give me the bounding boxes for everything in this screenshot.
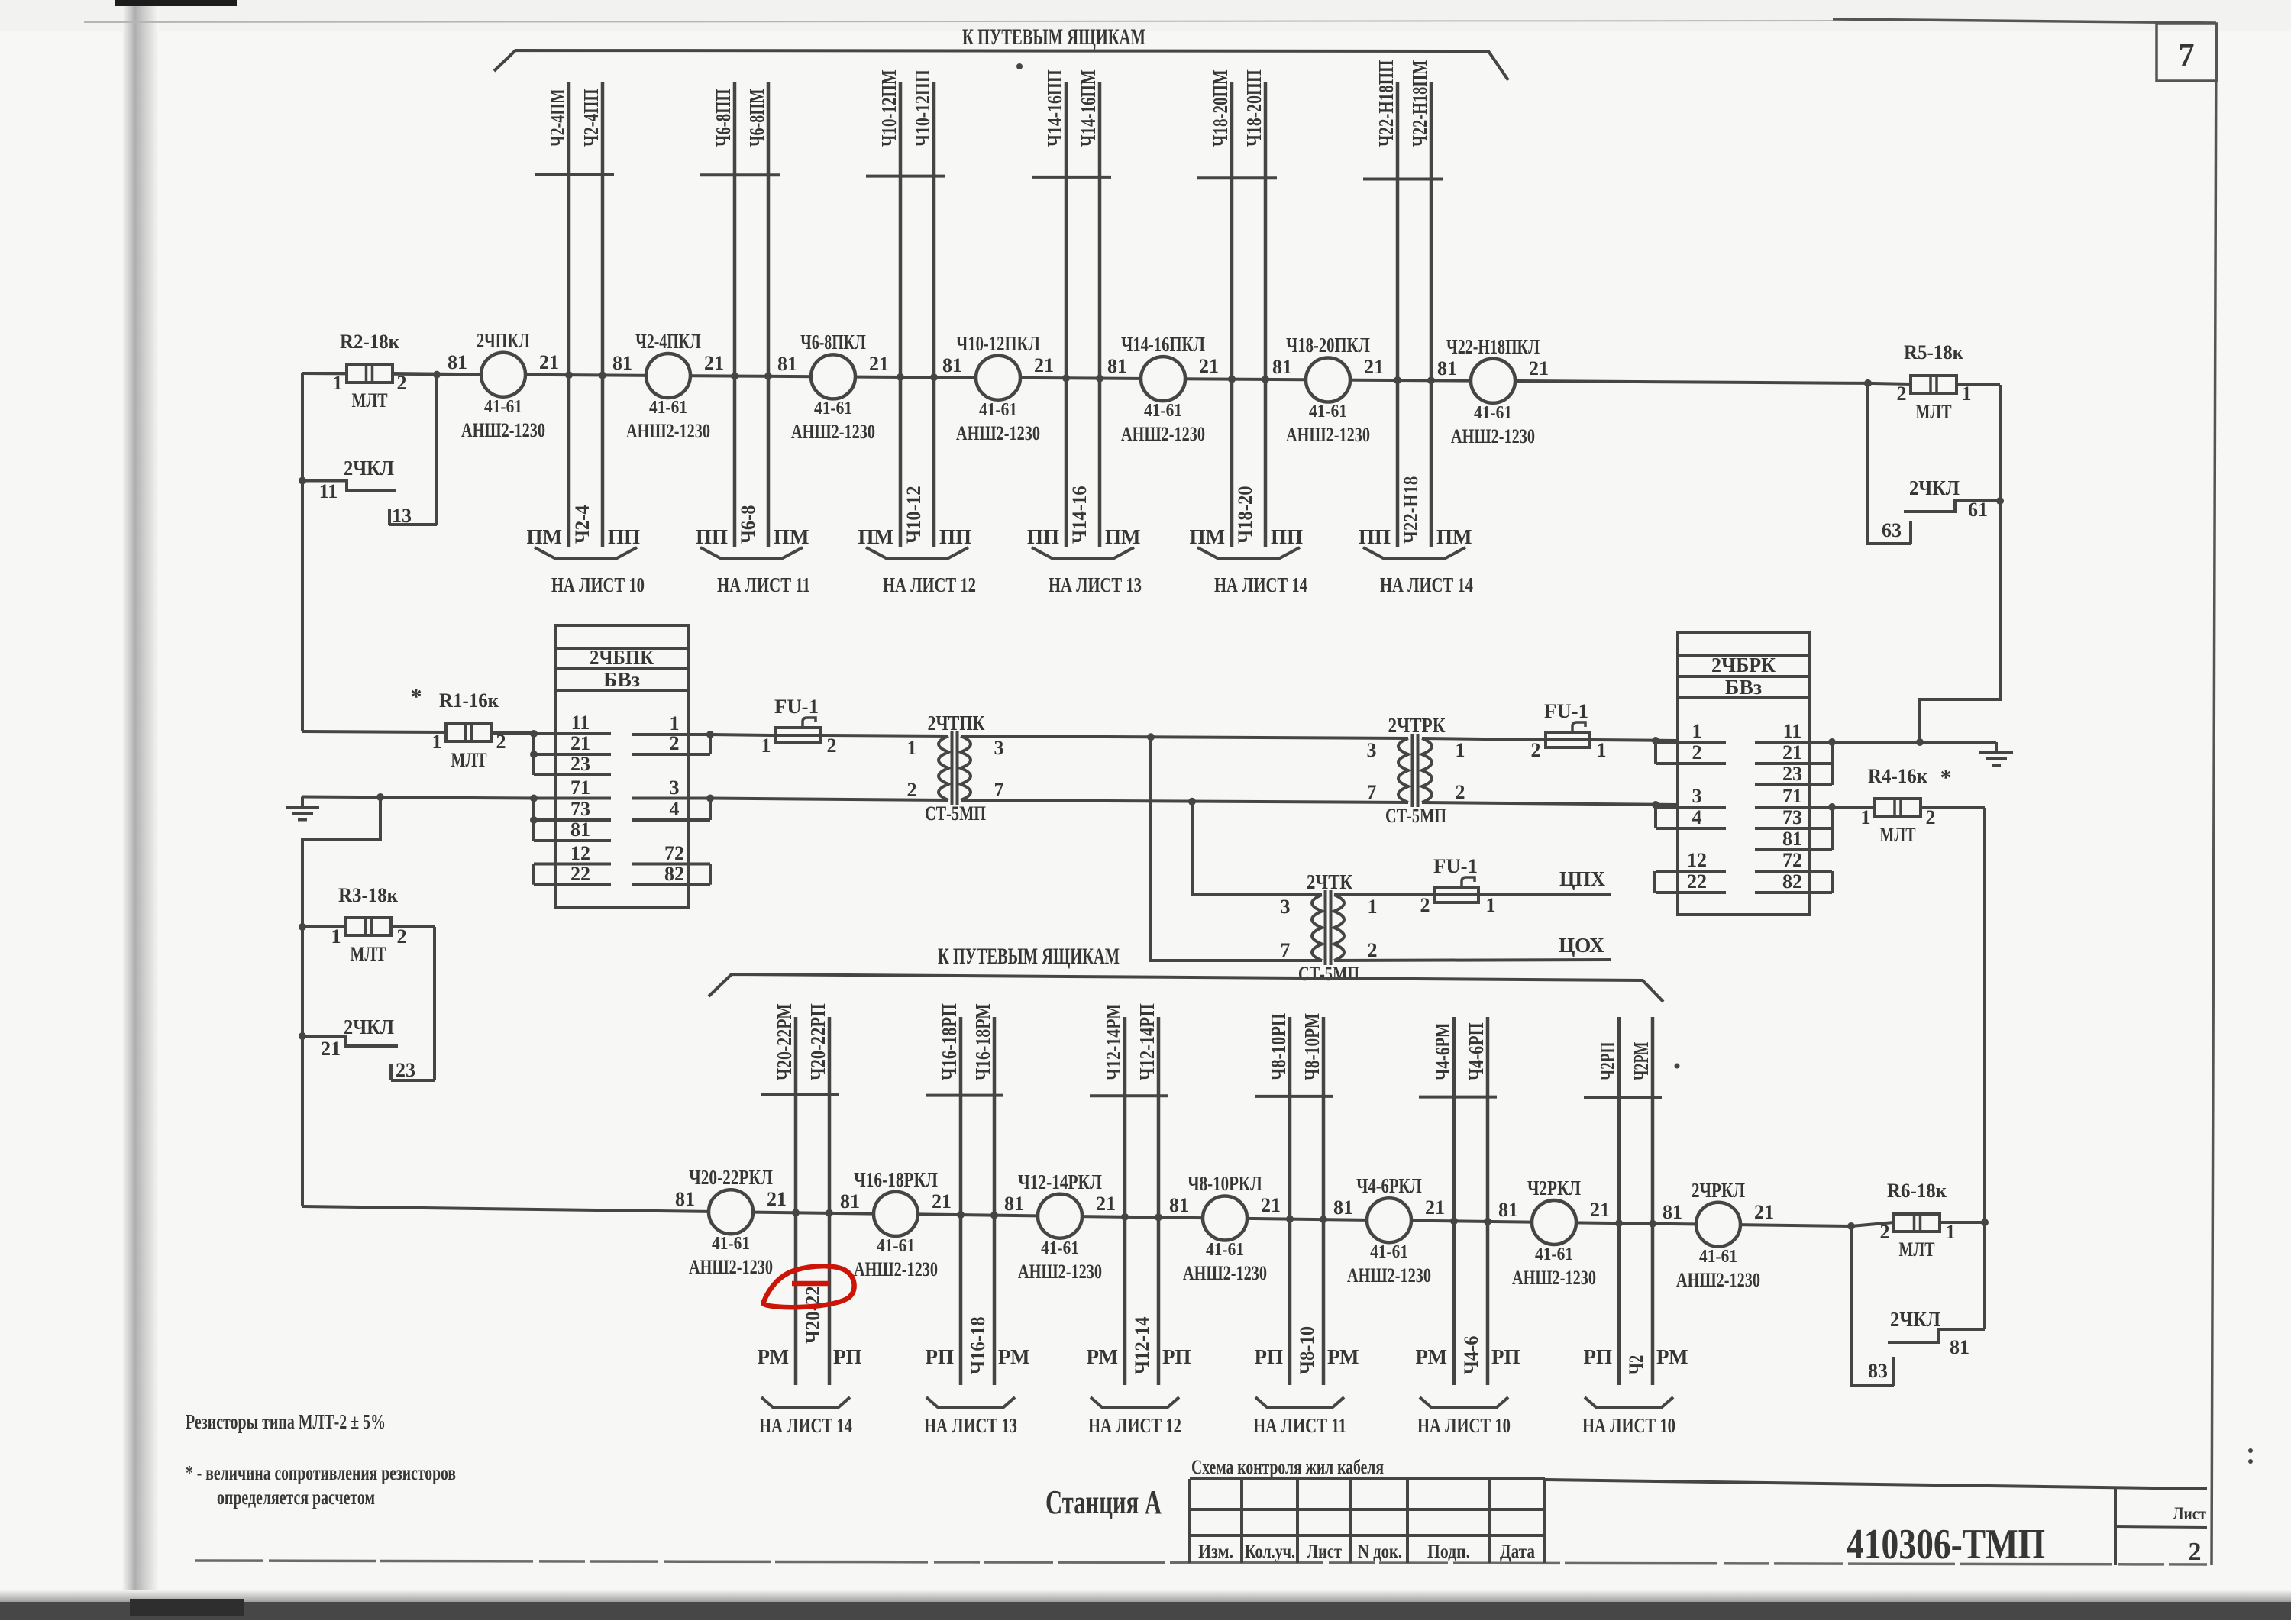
cable core label Ч14-16 — [1068, 486, 1091, 544]
terminal labels РМ/РП pair Ч4-6 — [1416, 1345, 1520, 1368]
svg-text:41-61: 41-61 — [979, 400, 1017, 420]
svg-text:21: 21 — [704, 352, 724, 374]
svg-text:* - величина сопротивления рез: * - величина сопротивления резисторов — [186, 1461, 456, 1484]
svg-text:1: 1 — [432, 731, 442, 753]
label Станция А — [1045, 1484, 1162, 1521]
svg-text:Резисторы типа МЛТ-2 ± 5%: Резисторы типа МЛТ-2 ± 5% — [186, 1410, 386, 1433]
cable core label Ч18-20 — [1234, 486, 1256, 544]
terminal labels РП/РМ pair Ч16-18 — [926, 1345, 1030, 1368]
svg-text:1: 1 — [1597, 739, 1607, 761]
svg-text:2ЧБРК: 2ЧБРК — [1711, 654, 1776, 676]
wire: top relay bus from rail to R5 — [302, 373, 1868, 383]
svg-text:Ч4-6РП: Ч4-6РП — [1465, 1022, 1488, 1080]
svg-text:2: 2 — [1531, 739, 1541, 761]
terminal block 2ЧБРК / БВз — [1654, 633, 1836, 915]
svg-text:Ч2-4ПМ: Ч2-4ПМ — [546, 89, 569, 147]
svg-text:FU-1: FU-1 — [1433, 855, 1478, 877]
svg-text:ПМ: ПМ — [1190, 525, 1226, 548]
wire: bottom relay bus — [302, 1206, 1851, 1226]
svg-text:21: 21 — [1590, 1199, 1610, 1221]
svg-text:11: 11 — [319, 480, 338, 502]
svg-text:АНШ2-1230: АНШ2-1230 — [1347, 1264, 1431, 1287]
svg-text:ЦПХ: ЦПХ — [1559, 867, 1605, 890]
svg-text:ПП: ПП — [608, 525, 640, 548]
svg-text:22: 22 — [1687, 870, 1707, 893]
wire: left vertical rail — [301, 373, 304, 731]
svg-text:АНШ2-1230: АНШ2-1230 — [626, 420, 710, 442]
svg-text:7: 7 — [1281, 939, 1291, 961]
cable crossing tick pair Ч8-10 — [1255, 1095, 1333, 1098]
cable crossing tick pair Ч10-12 — [866, 175, 945, 178]
svg-text:Ч10-12ПКЛ: Ч10-12ПКЛ — [956, 332, 1040, 355]
svg-text:81: 81 — [942, 354, 962, 376]
cable wire Ч14-16ПП — [1043, 69, 1066, 547]
svg-text:РП: РП — [1162, 1345, 1191, 1368]
wire: branch to 2ЧТК pin 7 (ЦОХ side) — [1151, 737, 1322, 961]
terminal labels РМ/РП pair Ч20-22 — [758, 1345, 862, 1368]
svg-text:АНШ2-1230: АНШ2-1230 — [1018, 1261, 1102, 1283]
cable wire Ч18-20ПМ — [1209, 69, 1232, 547]
red hand-drawn annotation oval — [763, 1266, 854, 1307]
svg-text:СТ-5МП: СТ-5МП — [1385, 805, 1446, 827]
svg-text:2: 2 — [1420, 894, 1430, 916]
svg-text:АНШ2-1230: АНШ2-1230 — [461, 419, 545, 441]
ground symbol (left) — [286, 797, 319, 820]
reference mark — [1016, 63, 1023, 69]
svg-text:РМ: РМ — [1327, 1345, 1359, 1368]
reference mark — [1675, 1064, 1680, 1069]
transformer 2ЧТПК СТ-5МП — [907, 712, 1004, 825]
relay Ч18-20ПКЛ (АНШ2-1230) — [1272, 334, 1384, 446]
svg-text:Ч2РП: Ч2РП — [1596, 1042, 1619, 1080]
svg-text:2ЧКЛ: 2ЧКЛ — [344, 1015, 394, 1038]
svg-text:Ч22-Н18: Ч22-Н18 — [1400, 476, 1422, 544]
svg-text:К ПУТЕВЫМ ЯЩИКАМ: К ПУТЕВЫМ ЯЩИКАМ — [962, 24, 1145, 50]
svg-text:21: 21 — [1529, 357, 1549, 379]
svg-text:Лист: Лист — [1307, 1542, 1342, 1562]
svg-text:НА ЛИСТ 12: НА ЛИСТ 12 — [883, 573, 976, 596]
svg-text:21: 21 — [1261, 1194, 1281, 1216]
svg-text:81: 81 — [675, 1188, 695, 1210]
svg-text:11: 11 — [571, 712, 590, 734]
svg-text:Ч10-12: Ч10-12 — [903, 486, 925, 544]
svg-text:1: 1 — [333, 372, 343, 394]
bracket НА ЛИСТ 14 — [1197, 547, 1307, 596]
svg-text:Ч10-12ПМ: Ч10-12ПМ — [877, 69, 900, 147]
svg-text:81: 81 — [777, 353, 797, 375]
svg-text:БВз: БВз — [603, 668, 640, 691]
svg-text:2: 2 — [496, 731, 506, 753]
wire: 2ЧТРК pin 1 to FU-1 to 2ЧБРК rows 1/2 — [1422, 737, 1678, 744]
svg-text:*: * — [411, 684, 422, 709]
bracket НА ЛИСТ 13 — [924, 1397, 1017, 1437]
cable wire Ч2РП — [1596, 1017, 1619, 1385]
svg-text:ПП: ПП — [1027, 525, 1059, 548]
svg-text:41-61: 41-61 — [1699, 1247, 1737, 1267]
svg-text:2ЧРКЛ: 2ЧРКЛ — [1692, 1179, 1745, 1202]
svg-text:МЛТ: МЛТ — [1916, 401, 1952, 423]
svg-text:81: 81 — [570, 818, 590, 841]
svg-text:61: 61 — [1968, 499, 1988, 521]
svg-text:41-61: 41-61 — [1474, 403, 1512, 423]
svg-text:Ч20-22РМ: Ч20-22РМ — [773, 1003, 796, 1080]
svg-text:Ч8-10РКЛ: Ч8-10РКЛ — [1188, 1172, 1262, 1195]
junction dots pair Ч20-22 on bottom bus — [792, 1209, 833, 1217]
svg-text:63: 63 — [1882, 519, 1902, 541]
cable crossing tick pair Ч6-8 — [700, 173, 780, 176]
svg-text:Ч2: Ч2 — [1625, 1355, 1647, 1374]
terminal labels ПМ/ПП pair Ч18-20 — [1190, 525, 1304, 548]
cable core label Ч8-10 — [1296, 1326, 1318, 1374]
svg-text:Ч22-Н18ПКЛ: Ч22-Н18ПКЛ — [1446, 335, 1540, 358]
svg-text:СТ-5МП: СТ-5МП — [1298, 963, 1359, 985]
svg-text:2: 2 — [670, 732, 680, 754]
bracket НА ЛИСТ 10 — [535, 547, 645, 596]
relay Ч6-8ПКЛ (АНШ2-1230) — [777, 331, 889, 443]
svg-text:РП: РП — [833, 1345, 862, 1368]
svg-text:1: 1 — [1962, 383, 1972, 405]
svg-text:81: 81 — [612, 352, 632, 374]
svg-text:81: 81 — [1272, 356, 1292, 378]
svg-text:РП: РП — [1255, 1345, 1284, 1368]
cable crossing tick pair Ч2 — [1584, 1096, 1662, 1099]
cable wire Ч2-4ПМ — [546, 82, 569, 547]
svg-text:Ч6-8ПМ: Ч6-8ПМ — [745, 89, 768, 147]
svg-text:21: 21 — [1096, 1193, 1116, 1215]
svg-text:Ч16-18РМ: Ч16-18РМ — [971, 1003, 994, 1080]
svg-text:21: 21 — [1364, 356, 1384, 378]
svg-text:2: 2 — [1692, 741, 1702, 764]
svg-text:2ЧТРК: 2ЧТРК — [1388, 714, 1446, 737]
svg-text:Подп.: Подп. — [1427, 1542, 1470, 1562]
svg-text:НА ЛИСТ 14: НА ЛИСТ 14 — [1380, 573, 1473, 596]
svg-text:НА ЛИСТ 13: НА ЛИСТ 13 — [1049, 573, 1142, 596]
svg-text:Ч16-18: Ч16-18 — [967, 1316, 989, 1374]
cable crossing tick pair Ч16-18 — [926, 1094, 1003, 1097]
junction dots pair Ч14-16 on top bus — [1062, 374, 1103, 382]
svg-text:Ч14-16: Ч14-16 — [1068, 486, 1091, 544]
svg-text:РП: РП — [1491, 1345, 1520, 1368]
junction dots pair Ч6-8 on top bus — [731, 373, 772, 380]
svg-text:21: 21 — [570, 732, 590, 754]
svg-text:Ч18-20: Ч18-20 — [1234, 486, 1256, 544]
cable wire Ч4-6РП — [1465, 1017, 1488, 1385]
svg-text:23: 23 — [396, 1059, 415, 1081]
svg-text:81: 81 — [1333, 1196, 1353, 1219]
svg-text:4: 4 — [1692, 806, 1702, 828]
svg-text:НА ЛИСТ 10: НА ЛИСТ 10 — [1417, 1414, 1511, 1437]
svg-text:21: 21 — [869, 353, 889, 375]
svg-text:2: 2 — [1456, 781, 1465, 803]
svg-text:81: 81 — [1107, 355, 1127, 377]
cable crossing tick pair Ч18-20 — [1197, 176, 1277, 179]
svg-text:2ЧБПК: 2ЧБПК — [590, 646, 654, 669]
svg-text:22: 22 — [570, 863, 590, 885]
bracket НА ЛИСТ 14 — [759, 1397, 852, 1437]
svg-text:41-61: 41-61 — [1041, 1238, 1079, 1258]
svg-text:R2-18к: R2-18к — [340, 331, 399, 353]
svg-text:41-61: 41-61 — [1309, 402, 1347, 421]
fuse FU-1 (left) — [761, 696, 837, 757]
svg-text:12: 12 — [570, 842, 590, 864]
svg-text:Станция А: Станция А — [1045, 1484, 1162, 1521]
svg-text:определяется расчетом: определяется расчетом — [217, 1486, 375, 1509]
svg-text:НА ЛИСТ 14: НА ЛИСТ 14 — [759, 1414, 852, 1437]
svg-text:12: 12 — [1687, 849, 1707, 871]
bracket НА ЛИСТ 14 — [1363, 547, 1473, 596]
cable wire Ч8-10РМ — [1301, 1013, 1323, 1385]
svg-text:41-61: 41-61 — [712, 1234, 750, 1254]
svg-text:2: 2 — [397, 925, 407, 948]
terminal labels РП/РМ pair Ч2 — [1584, 1345, 1688, 1368]
junction dots pair Ч10-12 on top bus — [897, 373, 938, 381]
note: * величина сопротивления резисторов определяется расчетом — [186, 1461, 456, 1509]
svg-text:1: 1 — [331, 925, 341, 948]
svg-text:83: 83 — [1868, 1360, 1888, 1382]
cable core label Ч2-4 — [571, 505, 593, 544]
svg-text:2: 2 — [2189, 1538, 2202, 1566]
svg-text:7: 7 — [1367, 781, 1377, 803]
svg-text:41-61: 41-61 — [877, 1236, 915, 1256]
svg-text:21: 21 — [1425, 1196, 1445, 1219]
cable wire Ч6-8ПП — [712, 82, 735, 547]
svg-text:Ч12-14РМ: Ч12-14РМ — [1102, 1003, 1125, 1080]
svg-text:ПП: ПП — [939, 525, 971, 548]
svg-text:ПМ: ПМ — [1436, 525, 1472, 548]
terminal labels ПП/ПМ pair Ч22-Н18 — [1359, 525, 1472, 548]
svg-text:МЛТ: МЛТ — [451, 749, 487, 771]
lower cable bracket К ПУТЕВЫМ ЯЩИКАМ — [709, 944, 1663, 1002]
transformer 2ЧТК СТ-5МП — [1281, 870, 1378, 985]
svg-text:R5-18к: R5-18к — [1904, 341, 1963, 363]
svg-text:2: 2 — [1880, 1221, 1890, 1243]
cable wire Ч16-18РП — [938, 1003, 961, 1385]
cable wire Ч16-18РМ — [971, 1003, 994, 1385]
svg-text:Ч4-6: Ч4-6 — [1460, 1336, 1482, 1374]
svg-text:81: 81 — [1782, 828, 1802, 850]
svg-text:Ч14-16ПП: Ч14-16ПП — [1043, 69, 1066, 147]
svg-text:2: 2 — [907, 779, 917, 801]
svg-text:МЛТ: МЛТ — [352, 389, 388, 412]
svg-text:ПМ: ПМ — [527, 525, 563, 548]
svg-text:2: 2 — [1897, 383, 1907, 405]
svg-text:410306-ТМП: 410306-ТМП — [1847, 1521, 2045, 1568]
ground symbol (right) — [1979, 742, 2013, 765]
svg-text:НА ЛИСТ 14: НА ЛИСТ 14 — [1214, 573, 1307, 596]
svg-text:Ч22-Н18ПП: Ч22-Н18ПП — [1375, 60, 1398, 147]
bracket НА ЛИСТ 11 — [1253, 1397, 1346, 1437]
cable core label Ч4-6 — [1460, 1336, 1482, 1374]
cable wire Ч12-14РМ — [1102, 1003, 1125, 1385]
svg-text:3: 3 — [1367, 739, 1377, 761]
svg-text:РП: РП — [1584, 1345, 1613, 1368]
svg-text:Ч6-8: Ч6-8 — [737, 505, 759, 544]
bracket НА ЛИСТ 12 — [866, 547, 976, 596]
wire: bus junction down to contact 83 — [1847, 1222, 1894, 1386]
svg-text:АНШ2-1230: АНШ2-1230 — [689, 1256, 773, 1278]
svg-text:1: 1 — [1486, 894, 1496, 916]
svg-text:R3-18к: R3-18к — [338, 884, 398, 906]
svg-text:АНШ2-1230: АНШ2-1230 — [1121, 423, 1205, 445]
svg-text:41-61: 41-61 — [1370, 1242, 1408, 1262]
svg-text:21: 21 — [1034, 354, 1054, 376]
svg-text:13: 13 — [392, 505, 412, 527]
svg-text:НА ЛИСТ 12: НА ЛИСТ 12 — [1088, 1414, 1181, 1437]
cable core label Ч2 — [1625, 1355, 1647, 1374]
svg-text:РМ: РМ — [1656, 1345, 1688, 1368]
svg-text:Ч18-20ПП: Ч18-20ПП — [1242, 69, 1265, 147]
svg-text:81: 81 — [1498, 1199, 1518, 1221]
svg-text:2: 2 — [397, 372, 407, 394]
relay Ч4-6РКЛ (АНШ2-1230) — [1333, 1174, 1445, 1287]
terminal labels РП/РМ pair Ч8-10 — [1255, 1345, 1359, 1368]
net label ЦПХ — [1559, 867, 1605, 890]
svg-text:Ч16-18РКЛ: Ч16-18РКЛ — [854, 1168, 938, 1191]
svg-text:Ч20-22РКЛ: Ч20-22РКЛ — [689, 1166, 773, 1189]
relay Ч14-16ПКЛ (АНШ2-1230) — [1107, 333, 1219, 445]
bracket НА ЛИСТ 12 — [1088, 1397, 1181, 1437]
svg-text:Ч8-10РП: Ч8-10РП — [1267, 1013, 1290, 1080]
cable wire Ч14-16ПМ — [1077, 69, 1100, 547]
resistor R5-18к — [1868, 341, 2000, 423]
svg-text:Ч12-14РП: Ч12-14РП — [1136, 1003, 1158, 1080]
svg-text:АНШ2-1230: АНШ2-1230 — [956, 422, 1040, 444]
relay contact 2ЧКЛ pins 21/23 — [299, 1015, 435, 1081]
svg-text:21: 21 — [1199, 355, 1219, 377]
cable crossing tick pair Ч4-6 — [1419, 1096, 1497, 1099]
svg-text:Ч8-10: Ч8-10 — [1296, 1326, 1318, 1374]
svg-text:РП: РП — [926, 1345, 955, 1368]
svg-text:7: 7 — [2179, 38, 2195, 73]
svg-text:Ч20-22: Ч20-22 — [802, 1286, 824, 1344]
junction dots pair Ч2 on bottom bus — [1615, 1219, 1656, 1228]
svg-text:81: 81 — [1950, 1336, 1969, 1358]
svg-text:РМ: РМ — [758, 1345, 789, 1368]
svg-text:РМ: РМ — [1087, 1345, 1118, 1368]
svg-text:Ч16-18РП: Ч16-18РП — [938, 1003, 961, 1080]
svg-text:73: 73 — [1782, 806, 1802, 828]
svg-text:Ч12-14РКЛ: Ч12-14РКЛ — [1018, 1170, 1102, 1193]
svg-text:23: 23 — [1782, 763, 1802, 785]
cable crossing tick pair Ч2-4 — [535, 173, 614, 176]
cable wire Ч22-Н18ПП — [1375, 60, 1398, 547]
wire: branch from ground row down to R3 loop — [302, 797, 380, 1206]
cable core label Ч20-22 — [802, 1286, 824, 1344]
cable wire Ч20-22РМ — [773, 1003, 796, 1385]
svg-text:НА ЛИСТ 10: НА ЛИСТ 10 — [551, 573, 645, 596]
terminal labels ПП/ПМ pair Ч14-16 — [1027, 525, 1141, 548]
svg-text:81: 81 — [1437, 357, 1457, 379]
resistor R2-18к — [302, 331, 481, 412]
net label ЦОХ — [1559, 934, 1604, 957]
svg-text:2ЧКЛ: 2ЧКЛ — [1909, 476, 1960, 499]
svg-text:1: 1 — [1692, 720, 1702, 742]
svg-text:Ч4-6РМ: Ч4-6РМ — [1431, 1022, 1454, 1080]
svg-text:Ч2РКЛ: Ч2РКЛ — [1527, 1177, 1581, 1199]
svg-text:ПП: ПП — [1271, 525, 1303, 548]
cable wire Ч4-6РМ — [1431, 1017, 1454, 1385]
junction dots pair Ч4-6 on bottom bus — [1450, 1217, 1491, 1225]
cable crossing tick pair Ч12-14 — [1090, 1094, 1168, 1097]
svg-text:НА ЛИСТ 11: НА ЛИСТ 11 — [1253, 1414, 1346, 1437]
svg-text:НА ЛИСТ 11: НА ЛИСТ 11 — [717, 573, 810, 596]
svg-text:ПМ: ПМ — [1105, 525, 1141, 548]
terminal labels ПП/ПМ pair Ч6-8 — [696, 525, 809, 548]
bracket НА ЛИСТ 10 — [1417, 1397, 1511, 1437]
svg-text:БВз: БВз — [1725, 676, 1762, 699]
cable core label Ч16-18 — [967, 1316, 989, 1374]
svg-text:2ЧКЛ: 2ЧКЛ — [1890, 1308, 1940, 1331]
svg-text:1: 1 — [670, 712, 680, 735]
svg-text:2ЧТПК: 2ЧТПК — [928, 712, 985, 735]
svg-text:2: 2 — [827, 735, 837, 757]
junction dots pair Ч16-18 on bottom bus — [957, 1211, 998, 1219]
svg-text:Ч6-8ПП: Ч6-8ПП — [712, 89, 735, 147]
svg-text:72: 72 — [1782, 849, 1802, 871]
sheet box Лист 2 — [2115, 1488, 2207, 1566]
relay contact 2ЧКЛ pins 81/83 — [1868, 1222, 1985, 1382]
svg-text:РМ: РМ — [1416, 1345, 1447, 1368]
svg-text:2: 2 — [1368, 939, 1378, 961]
svg-text:Дата: Дата — [1500, 1542, 1535, 1562]
bracket НА ЛИСТ 10 — [1582, 1397, 1675, 1437]
svg-text:Ч8-10РМ: Ч8-10РМ — [1301, 1013, 1323, 1080]
svg-text:Ч18-20ПМ: Ч18-20ПМ — [1209, 69, 1232, 147]
svg-text:1: 1 — [761, 735, 771, 757]
svg-text:АНШ2-1230: АНШ2-1230 — [1286, 424, 1370, 446]
svg-text:81: 81 — [1169, 1194, 1189, 1216]
svg-text:21: 21 — [1754, 1201, 1774, 1223]
svg-text:81: 81 — [1663, 1201, 1682, 1223]
wire: 2ЧТК pin 2 to ЦОХ — [1334, 960, 1611, 961]
svg-text:21: 21 — [321, 1038, 341, 1060]
note: Резисторы типа МЛТ-2 ± 5% — [186, 1410, 386, 1433]
svg-text:81: 81 — [1004, 1193, 1024, 1215]
svg-text:2ЧТК: 2ЧТК — [1307, 870, 1352, 893]
svg-text:71: 71 — [570, 776, 590, 799]
svg-text:МЛТ: МЛТ — [351, 943, 386, 965]
svg-text:АНШ2-1230: АНШ2-1230 — [1512, 1267, 1596, 1289]
svg-text:МЛТ: МЛТ — [1899, 1238, 1935, 1261]
relay Ч20-22РКЛ (АНШ2-1230) — [675, 1166, 787, 1278]
svg-text:3: 3 — [1692, 785, 1702, 807]
cable wire Ч2-4ПП — [580, 82, 603, 547]
svg-text:Ч10-12ПП: Ч10-12ПП — [911, 69, 934, 147]
relay 2ЧПКЛ (АНШ2-1230) — [448, 329, 559, 441]
svg-text:НА ЛИСТ 10: НА ЛИСТ 10 — [1582, 1414, 1675, 1437]
svg-text:2ЧПКЛ: 2ЧПКЛ — [477, 329, 530, 352]
svg-text:1: 1 — [1368, 896, 1378, 918]
junction dots pair Ч2-4 on top bus — [565, 371, 606, 379]
svg-text:Ч2-4: Ч2-4 — [571, 505, 593, 544]
svg-text:N док.: N док. — [1358, 1542, 1402, 1562]
svg-text:21: 21 — [539, 351, 559, 373]
wire: branch to 2ЧТК pin 3 — [1192, 802, 1322, 895]
svg-text:73: 73 — [570, 798, 590, 820]
svg-text:Ч14-16ПКЛ: Ч14-16ПКЛ — [1121, 333, 1205, 356]
junction dots pair Ч12-14 on bottom bus — [1121, 1213, 1162, 1222]
svg-text:41-61: 41-61 — [484, 397, 522, 417]
title block Схема контроля жил кабеля — [1190, 1456, 2207, 1563]
svg-text:Ч4-6РКЛ: Ч4-6РКЛ — [1356, 1174, 1421, 1197]
wire: FU-1 to 2ЧТПК pin 1 — [825, 735, 948, 736]
top cable bracket К ПУТЕВЫМ ЯЩИКАМ — [494, 24, 1508, 80]
cable crossing tick pair Ч20-22 — [761, 1093, 839, 1096]
cable core label Ч22-Н18 — [1400, 476, 1422, 544]
wire: 2ЧБРК rows 11/21 to ground — [1832, 738, 1996, 746]
cable wire Ч12-14РП — [1136, 1003, 1158, 1385]
cable core label Ч6-8 — [737, 505, 759, 544]
